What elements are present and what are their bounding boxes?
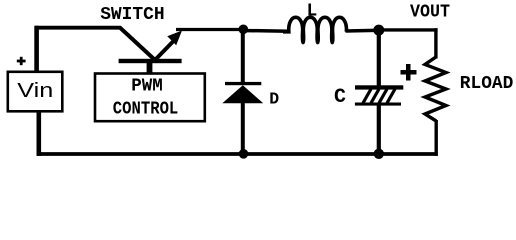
svg-text:SWITCH: SWITCH [100,5,165,25]
svg-text:PWM: PWM [131,76,163,96]
svg-text:CONTROL: CONTROL [113,99,179,119]
svg-text:L: L [307,1,318,21]
svg-text:RLOAD: RLOAD [460,74,514,94]
svg-text:D: D [269,90,279,109]
svg-text:C: C [334,86,346,109]
svg-text:Vin: Vin [17,80,53,102]
svg-text:VOUT: VOUT [410,2,450,22]
